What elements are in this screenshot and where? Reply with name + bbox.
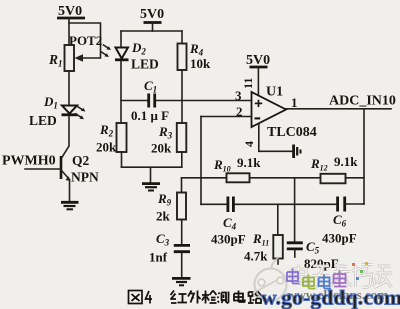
wire R9 to C3 bbox=[181, 220, 183, 245]
svg-text:4.7k: 4.7k bbox=[244, 249, 268, 264]
svg-text:C5: C5 bbox=[306, 239, 320, 256]
wire C3 to ground bbox=[181, 253, 183, 277]
svg-text:U1: U1 bbox=[266, 85, 283, 100]
capacitor C3 bbox=[174, 245, 190, 251]
wire C5 top stub bbox=[294, 204, 296, 241]
检 bbox=[202, 291, 209, 304]
svg-text:C1: C1 bbox=[144, 78, 157, 95]
svg-text:R12: R12 bbox=[310, 156, 328, 173]
wire pin 2 feedback vertical bbox=[200, 117, 202, 205]
wire rail to D2 bbox=[120, 31, 122, 48]
svg-text:1nf: 1nf bbox=[149, 250, 168, 265]
svg-text:D2: D2 bbox=[131, 40, 146, 57]
svg-text:11: 11 bbox=[241, 78, 255, 89]
resistor R2 bbox=[117, 123, 127, 152]
路 bbox=[248, 292, 254, 303]
wire pin 11 stub bbox=[257, 67, 259, 96]
svg-text:ADC_IN10: ADC_IN10 bbox=[329, 94, 396, 109]
ground (op-amp pin 4, sideways) bbox=[294, 145, 301, 159]
电 bbox=[234, 291, 245, 303]
watermark ghost characters 电子发烧友 bbox=[291, 265, 393, 288]
ground (C3) bbox=[172, 278, 191, 285]
svg-text:5V0: 5V0 bbox=[140, 7, 164, 22]
svg-text:20k: 20k bbox=[96, 140, 117, 155]
wire R9 top stub bbox=[181, 178, 183, 193]
wire lower rail middle (C4 to C6) bbox=[235, 203, 337, 205]
svg-text:430pF: 430pF bbox=[322, 231, 357, 246]
wire op-amp output ADC_IN10 bbox=[286, 108, 391, 110]
4 bbox=[146, 291, 153, 304]
capacitor C6 bbox=[338, 197, 345, 212]
svg-text:R3: R3 bbox=[158, 124, 173, 141]
resistor R1 bbox=[65, 45, 75, 71]
svg-text:LED: LED bbox=[131, 57, 159, 72]
svg-text:3: 3 bbox=[235, 88, 242, 103]
wire bottom rail bbox=[122, 166, 182, 168]
svg-text:D1: D1 bbox=[43, 94, 58, 111]
wire 5V0 bar stub bbox=[152, 23, 154, 32]
wire output branch vertical bbox=[363, 109, 365, 204]
power 5V0 (middle, receiver branch) bbox=[140, 7, 164, 23]
capacitor C5 bbox=[287, 243, 303, 249]
svg-text:9.1k: 9.1k bbox=[237, 155, 261, 170]
svg-text:R1: R1 bbox=[48, 52, 63, 69]
wire R1 to D1 bbox=[68, 71, 70, 105]
ground (Q2 emitter) bbox=[61, 202, 79, 209]
watermark colorful characters bbox=[287, 269, 347, 289]
wire 5V0 bar to R1 top bbox=[68, 18, 70, 45]
svg-text:10k: 10k bbox=[190, 56, 211, 71]
wire lower rail right (C6 to output branch) bbox=[346, 203, 364, 205]
capacitor C1 bbox=[149, 94, 155, 108]
ground (R2/R3 rail) bbox=[142, 184, 160, 191]
resistor R12 bbox=[321, 174, 346, 184]
svg-text:20k: 20k bbox=[151, 141, 172, 156]
svg-text:4: 4 bbox=[242, 141, 256, 147]
svg-text:C3: C3 bbox=[156, 231, 170, 248]
wire top rail D2/R4 bbox=[121, 30, 182, 32]
resistor R3 bbox=[177, 123, 187, 152]
svg-text:NPN: NPN bbox=[71, 170, 99, 185]
wire R2 bottom stub bbox=[121, 152, 123, 167]
watermark colored speckles bbox=[352, 262, 368, 280]
wire rail to R4 bbox=[181, 31, 183, 44]
svg-text:C6: C6 bbox=[333, 212, 347, 229]
外 bbox=[188, 291, 194, 303]
svg-text:R11: R11 bbox=[252, 231, 269, 248]
svg-text:LED: LED bbox=[29, 113, 57, 128]
svg-text:9.1k: 9.1k bbox=[334, 154, 358, 169]
resistor R10 bbox=[227, 173, 250, 182]
svg-text:0.1 μ F: 0.1 μ F bbox=[131, 108, 169, 123]
wire D2 to R2 bbox=[120, 61, 122, 123]
svg-text:1: 1 bbox=[291, 95, 298, 110]
wire C1 left segment bbox=[121, 100, 147, 102]
svg-text:PWMH0: PWMH0 bbox=[2, 154, 56, 169]
potentiometer POT2 wiper loop wire bbox=[69, 23, 101, 62]
D2 incoming light arrows bbox=[102, 45, 112, 57]
wire pin 4 to ground bbox=[259, 124, 292, 152]
svg-text:C4: C4 bbox=[223, 215, 237, 232]
wire lower rail left (pin2 to C4) bbox=[201, 203, 227, 205]
wire R4 to R3 bbox=[181, 70, 183, 123]
svg-text:R9: R9 bbox=[157, 191, 172, 208]
wire D1 to Q2 collector bbox=[62, 116, 70, 158]
svg-text:Q2: Q2 bbox=[72, 153, 90, 168]
wire junction Z vertical (rail to rail) bbox=[294, 178, 296, 205]
红 bbox=[171, 291, 177, 304]
D1 emission arrows bbox=[76, 107, 86, 120]
power 5V0 (left, top of R1 branch) bbox=[57, 4, 85, 19]
wire C5 bottom stub bbox=[294, 250, 296, 257]
wire R11 top stub bbox=[277, 204, 279, 235]
wire rail R12 to output branch bbox=[346, 177, 365, 179]
plus sign (pin 3 input) bbox=[255, 100, 262, 107]
photodiode D2 bbox=[115, 48, 129, 60]
capacitor C4 bbox=[228, 197, 234, 213]
transistor Q2 bbox=[25, 156, 71, 181]
svg-text:w.go-gddq.com: w.go-gddq.com bbox=[261, 286, 400, 309]
wire R11 bottom stub bbox=[277, 259, 279, 265]
svg-text:2k: 2k bbox=[156, 209, 171, 224]
wire rail R10 to R12 bbox=[250, 177, 321, 179]
wire ground stub (mid rail) bbox=[150, 167, 152, 183]
resistor R9 bbox=[177, 193, 186, 220]
svg-text:R10: R10 bbox=[213, 157, 231, 174]
svg-text:430pF: 430pF bbox=[211, 232, 246, 247]
op-amp U1 triangle bbox=[252, 92, 287, 127]
resistor R11 bbox=[273, 235, 283, 259]
图 bbox=[129, 291, 143, 304]
wire R3 bottom stub bbox=[181, 152, 183, 167]
caption 图4 红外检测电路 (drawn glyphs) bbox=[129, 291, 262, 304]
power 5V0 (op-amp) bbox=[246, 53, 270, 68]
测 bbox=[218, 293, 220, 303]
wire feedback rail left (R9 to R10) bbox=[182, 177, 227, 179]
wire C1 to op-amp pin3 bbox=[157, 100, 252, 102]
svg-text:R2: R2 bbox=[99, 122, 114, 139]
LED D1 bbox=[62, 106, 78, 115]
watermark logo circle bbox=[253, 258, 287, 301]
minus sign (pin 2 input) bbox=[255, 117, 261, 119]
wire pin 2 input bbox=[201, 116, 252, 118]
wire Q2 emitter to ground bbox=[69, 180, 71, 202]
resistor R4 bbox=[178, 44, 187, 71]
svg-text:TLC084: TLC084 bbox=[267, 125, 317, 140]
